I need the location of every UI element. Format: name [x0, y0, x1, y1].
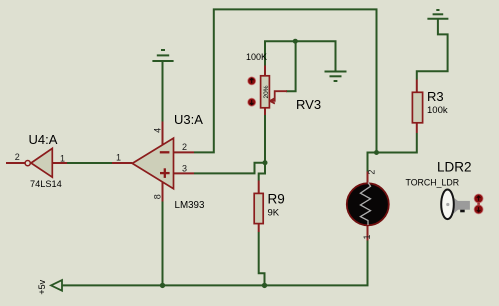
wire node A to LDR2 pin2: [368, 153, 377, 172]
svg-text:4: 4: [152, 128, 162, 133]
RV3 wiper arrow: [270, 91, 287, 103]
svg-text:1: 1: [116, 152, 121, 162]
svg-text:100K: 100K: [246, 52, 267, 62]
junction on rail at R9: [262, 283, 267, 288]
wire U3 pin8 to rail: [162, 202, 164, 286]
wire R9 bottom to rail: [259, 232, 265, 286]
svg-text:U4:A: U4:A: [29, 132, 58, 147]
wire node B to R9 top: [259, 163, 265, 181]
terminal +5v arrow: [51, 280, 62, 291]
torch actuator cone: [450, 195, 458, 217]
potentiometer RV3 body: [261, 76, 270, 108]
wire U3 pin4 to power: [162, 61, 164, 122]
svg-text:8: 8: [153, 194, 163, 199]
node B junction: [263, 160, 268, 165]
U3 pin8: [162, 181, 164, 202]
U4 pin1 input wire: [52, 162, 67, 164]
wire RV3 bottom to node B: [264, 115, 266, 163]
wire U4 out to U3: [67, 162, 112, 164]
svg-text:R3: R3: [427, 89, 444, 104]
svg-text:20%: 20%: [263, 85, 270, 98]
wire node B to U3 pin3: [194, 163, 265, 174]
svg-text:2: 2: [182, 142, 187, 152]
junction RV3 wiper node: [293, 39, 298, 44]
R3 bottom pin: [416, 123, 418, 134]
svg-text:R9: R9: [268, 192, 285, 207]
svg-text:74LS14: 74LS14: [30, 179, 62, 189]
LDR2 pin2: [367, 172, 369, 185]
ground symbol at RV3: [325, 72, 347, 82]
svg-text:100k: 100k: [427, 105, 448, 116]
U3 pin2: [174, 151, 195, 153]
torch actuator body: [458, 201, 470, 210]
RV3 bottom pin: [264, 108, 266, 116]
R3 top pin: [416, 80, 418, 93]
svg-text:2: 2: [15, 152, 20, 162]
torch lens dot: [446, 203, 449, 206]
svg-text:TORCH_LDR: TORCH_LDR: [406, 178, 460, 188]
wire RV3 top to ground: [265, 41, 336, 71]
LDR2 pin1: [367, 226, 369, 241]
svg-text:LDR2: LDR2: [437, 160, 472, 175]
svg-text:9K: 9K: [268, 208, 280, 219]
wire RV3 wiper up to node: [286, 41, 296, 91]
junction on rail at U3 pin8: [160, 283, 165, 288]
RV3 top pin: [264, 66, 266, 77]
torch actuator nub: [460, 210, 465, 213]
power symbol above U3 pin4: [152, 50, 173, 61]
LDR2 photoresistor body: [347, 183, 389, 225]
LDR2 zigzag element: [360, 183, 370, 226]
wire power to R3 top: [417, 19, 448, 80]
svg-text:LM393: LM393: [175, 200, 206, 211]
U3 pin4: [162, 122, 164, 147]
U3 minus input mark: [160, 151, 170, 153]
svg-text:+5v: +5v: [37, 279, 47, 294]
svg-text:1: 1: [362, 234, 372, 239]
torch up button: [477, 198, 479, 210]
resistor R9 body: [254, 193, 263, 223]
wire node A to R3 bottom: [377, 133, 417, 153]
power symbol top right: [427, 10, 448, 19]
op-amp U3:A body: [132, 138, 173, 189]
torch down button: [474, 205, 483, 214]
svg-text:2: 2: [366, 170, 376, 175]
RV3 up button dot: [248, 77, 256, 85]
U3 pin1 output wire: [112, 162, 132, 164]
wire +5v bottom rail: [62, 241, 368, 286]
svg-text:U3:A: U3:A: [174, 112, 203, 127]
R9 top pin: [258, 181, 260, 194]
RV3 down button dot: [248, 98, 256, 106]
U4 pin2 output wire: [6, 162, 25, 164]
resistor R3 body: [412, 92, 422, 123]
node A junction: [374, 150, 379, 155]
wire U3 pin2 top loop to node A: [194, 9, 377, 152]
U4:A bubble: [25, 161, 30, 166]
svg-text:1: 1: [60, 153, 65, 163]
U3 plus input mark: [160, 168, 170, 178]
torch actuator lens: [441, 190, 454, 220]
inverter U4:A body: [31, 148, 52, 177]
R9 bottom pin: [258, 224, 260, 233]
svg-text:3: 3: [182, 164, 187, 174]
U3 pin3: [174, 172, 195, 174]
svg-text:RV3: RV3: [296, 97, 321, 112]
